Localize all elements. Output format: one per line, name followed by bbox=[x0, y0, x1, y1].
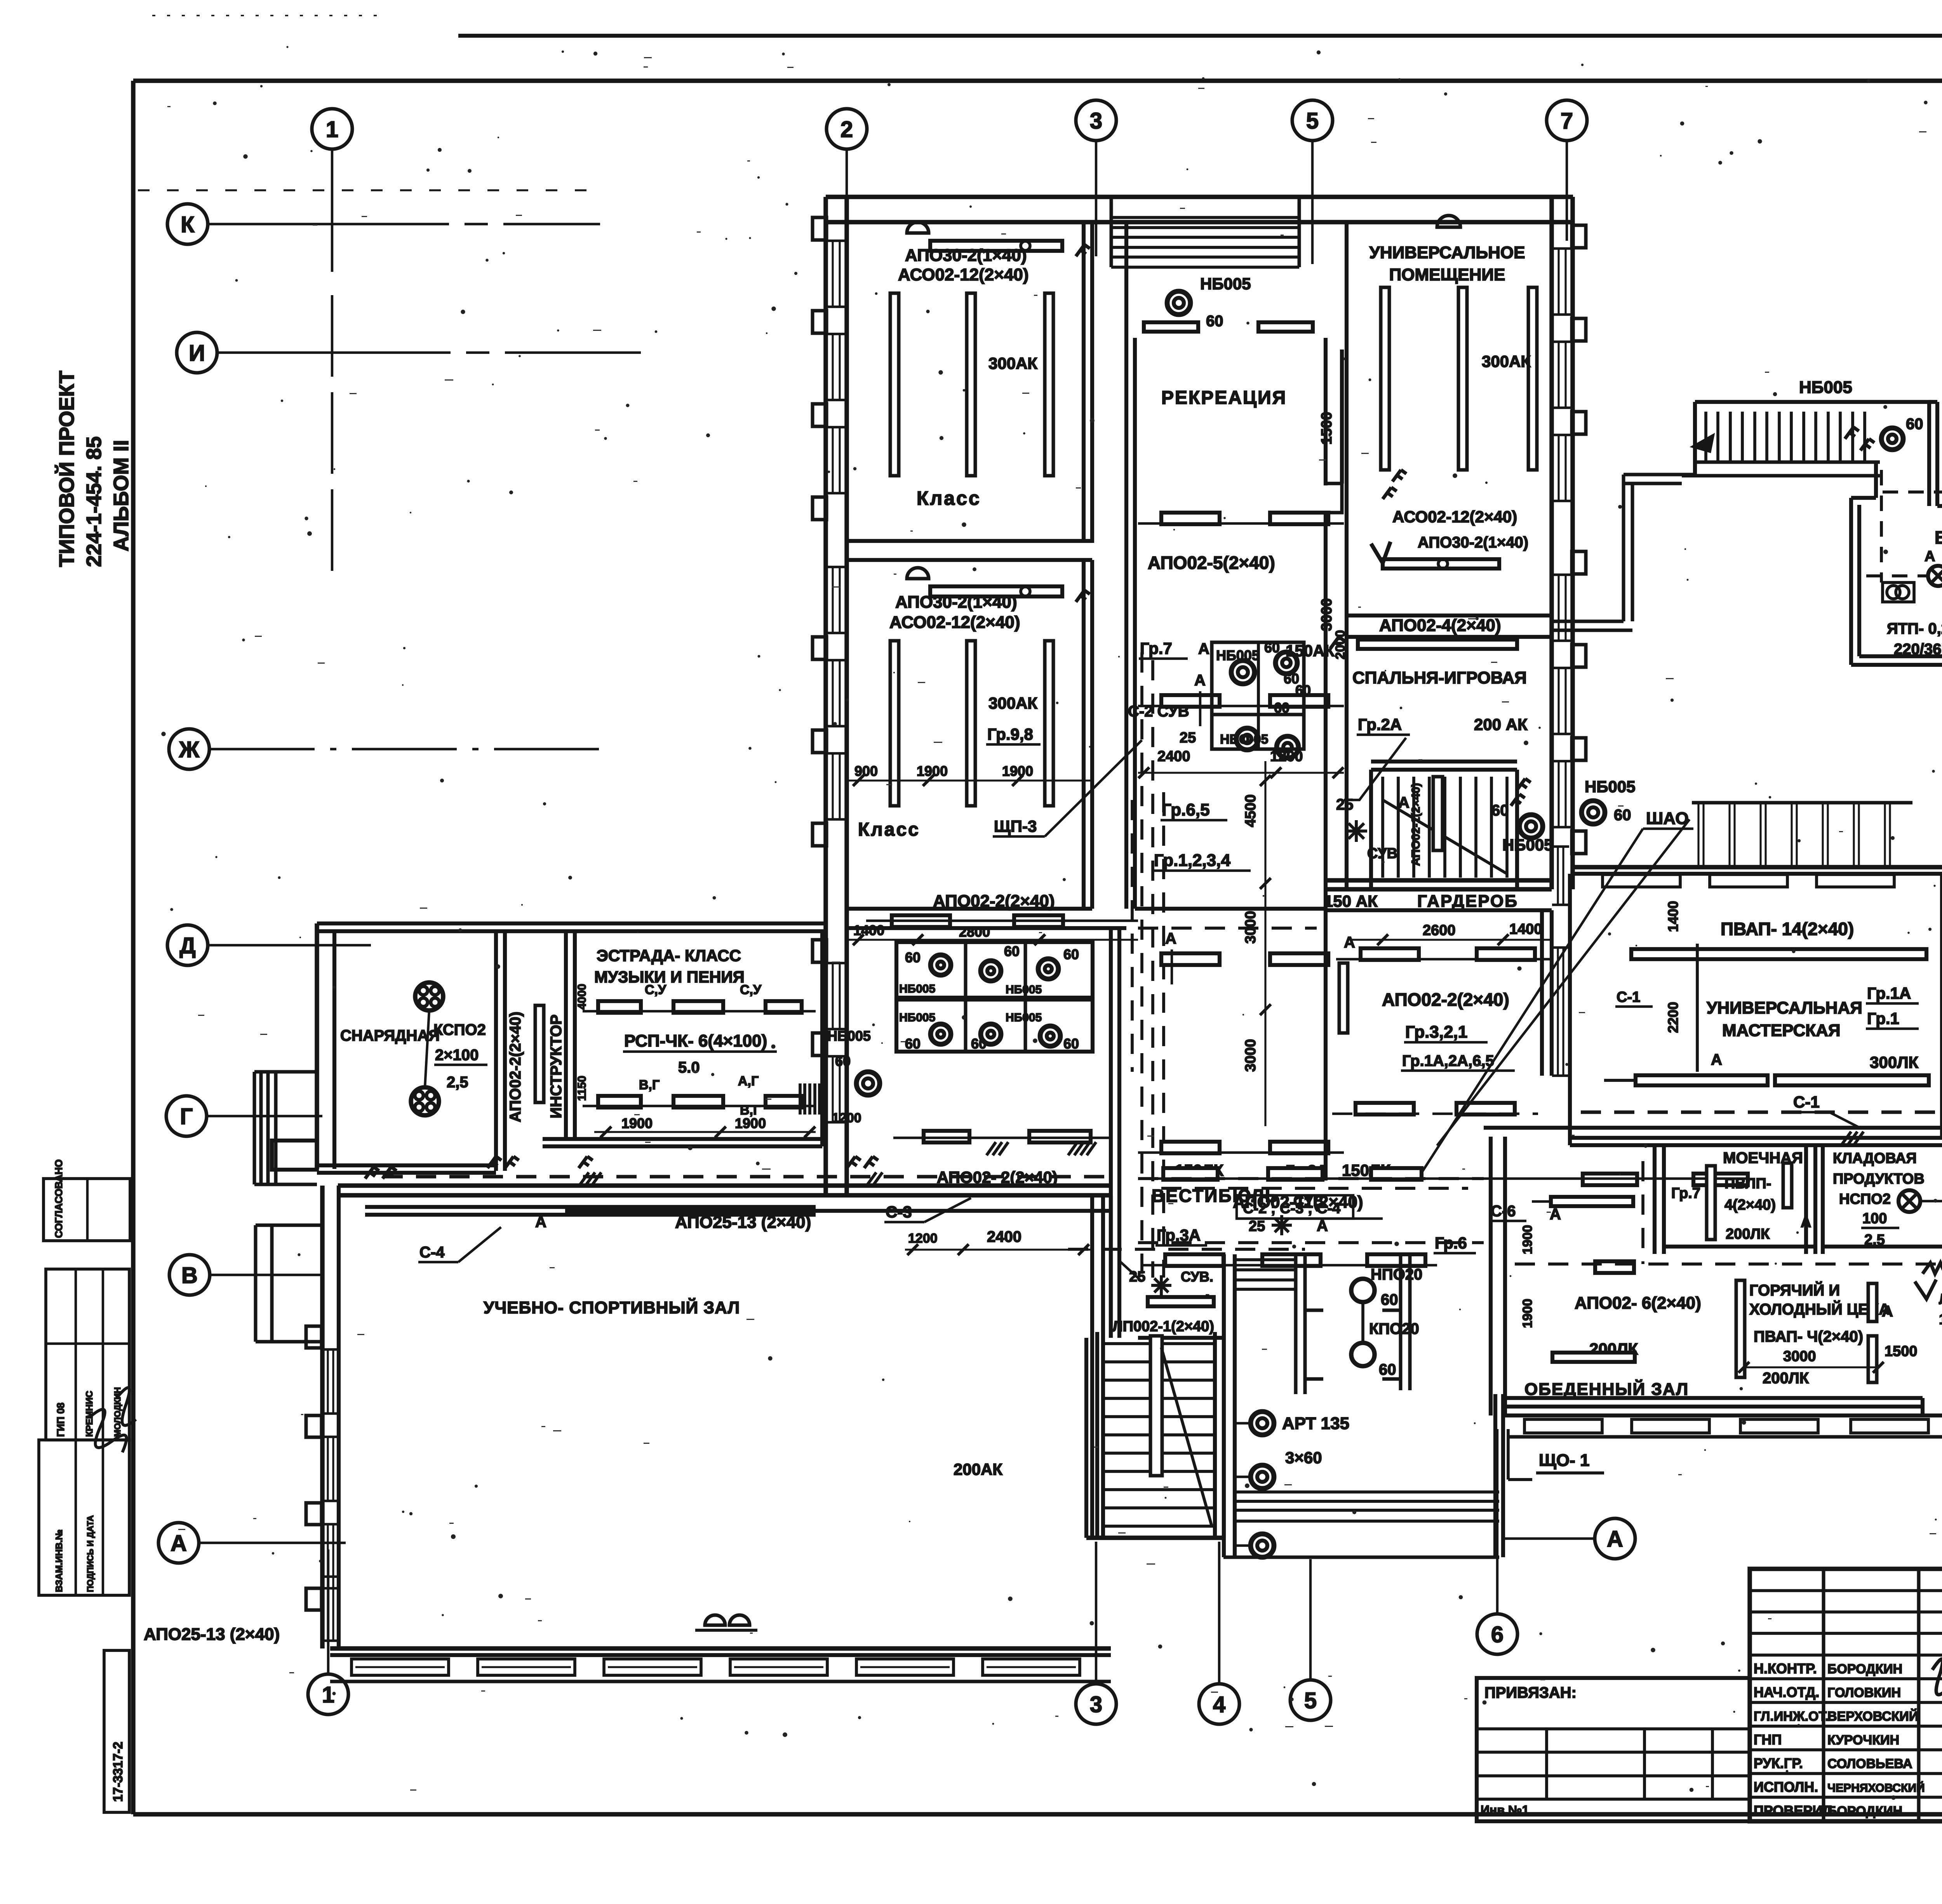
svg-text:4000: 4000 bbox=[576, 984, 588, 1010]
sleeping room top wall bbox=[1347, 616, 1552, 637]
svg-text:АПО30-2(1×40): АПО30-2(1×40) bbox=[1418, 534, 1528, 551]
svg-text:С-2 СУВ: С-2 СУВ bbox=[1128, 703, 1189, 720]
dining interior wall bbox=[1724, 1254, 1725, 1415]
vent detail upper walls bbox=[1851, 402, 1942, 665]
svg-text:К: К bbox=[181, 212, 195, 237]
classroom 2 labels bbox=[849, 593, 1142, 840]
toilet donuts row1 bbox=[899, 943, 1079, 996]
svg-text:60: 60 bbox=[1491, 802, 1509, 819]
gym east wall bbox=[1092, 1195, 1111, 1538]
svg-text:2400: 2400 bbox=[987, 1228, 1021, 1245]
nb005 at estrada right bbox=[800, 1028, 880, 1125]
left vertical project text bbox=[55, 370, 133, 567]
svg-text:БОРОДКИН: БОРОДКИН bbox=[1827, 1804, 1902, 1819]
svg-text:300АК: 300АК bbox=[1482, 352, 1531, 370]
svg-text:А: А bbox=[1194, 672, 1206, 689]
workshop s1 dashes bbox=[1581, 1093, 1942, 1128]
vestibule labels bbox=[1152, 1161, 1391, 1235]
cloakroom east window band bbox=[1552, 847, 1569, 1076]
svg-text:А: А bbox=[1198, 640, 1209, 657]
svg-text:60: 60 bbox=[1379, 1361, 1396, 1378]
svg-text:60: 60 bbox=[905, 1036, 921, 1052]
svg-text:А: А bbox=[1607, 1527, 1623, 1552]
svg-text:ГНП: ГНП bbox=[1754, 1732, 1782, 1748]
universal room luminaire strips bbox=[1381, 287, 1537, 470]
svg-text:3000: 3000 bbox=[1242, 1039, 1259, 1072]
left stamp signature scribble bbox=[89, 1388, 136, 1452]
moechnaya labels bbox=[1671, 1149, 1811, 1242]
kladovaya labels bbox=[1833, 1150, 1942, 1248]
axis D left bbox=[167, 925, 371, 965]
wc labels bbox=[1180, 640, 1311, 747]
snaryadnaya fans bbox=[411, 982, 443, 1115]
gym label bbox=[484, 1297, 740, 1317]
gr6 label bbox=[1434, 1234, 1476, 1253]
cloakroom capsules bbox=[1336, 948, 1552, 1033]
svg-text:224-1-454. 85: 224-1-454. 85 bbox=[82, 436, 106, 567]
workshop labels bbox=[1615, 901, 1919, 1071]
svg-text:2200: 2200 bbox=[1665, 1002, 1681, 1033]
svg-text:ЧЕРНЯХОВСКИЙ: ЧЕРНЯХОВСКИЙ bbox=[1827, 1781, 1925, 1794]
apo02 1 label bbox=[1915, 1280, 1942, 1348]
svg-text:РУК.ГР.: РУК.ГР. bbox=[1754, 1755, 1803, 1771]
gym west pilaster tabs bbox=[306, 1326, 322, 1610]
gym top wall bbox=[338, 1186, 1111, 1195]
svg-text:1150: 1150 bbox=[576, 1076, 588, 1101]
corridor s4 label bbox=[418, 1227, 501, 1262]
svg-text:НСПО2: НСПО2 bbox=[1839, 1191, 1891, 1207]
gym 200AK label bbox=[954, 1460, 1002, 1478]
upper corridor dashes bbox=[1138, 927, 1317, 930]
axis K left bbox=[167, 204, 600, 244]
right wing top wall bbox=[1574, 867, 1942, 874]
svg-text:УНИВЕРСАЛЬНАЯ: УНИВЕРСАЛЬНАЯ bbox=[1707, 998, 1862, 1017]
svg-text:ПРОДУКТОВ: ПРОДУКТОВ bbox=[1833, 1171, 1925, 1187]
svg-text:ПВЛП-: ПВЛП- bbox=[1724, 1175, 1771, 1192]
svg-text:ИСПОЛН.: ИСПОЛН. bbox=[1754, 1779, 1818, 1795]
dining top wall bbox=[1484, 1126, 1942, 1130]
svg-text:А: А bbox=[1711, 1051, 1722, 1068]
svg-text:ЛП002: ЛП002 bbox=[1939, 1291, 1942, 1308]
workshop west wall bbox=[1570, 874, 1942, 1145]
svg-text:ГИП 08: ГИП 08 bbox=[55, 1403, 66, 1437]
toilet donuts row2 bbox=[899, 1011, 1079, 1052]
vestibule north steps bbox=[1235, 1260, 1296, 1289]
svg-text:Инв.№1: Инв.№1 bbox=[1481, 1803, 1529, 1817]
recreation room labels bbox=[1148, 388, 1335, 660]
svg-text:ГЛ.ИНЖ.ОТ.: ГЛ.ИНЖ.ОТ. bbox=[1754, 1709, 1829, 1724]
svg-text:АПО30-2(1×40): АПО30-2(1×40) bbox=[895, 593, 1017, 612]
svg-text:АПО02-2(2×40): АПО02-2(2×40) bbox=[933, 892, 1055, 911]
svg-text:С,У: С,У bbox=[740, 982, 762, 997]
svg-text:АПО02-1(2×40): АПО02-1(2×40) bbox=[1410, 783, 1422, 866]
gr3a dashed line bbox=[1068, 1226, 1305, 1249]
svg-text:ЩО- 1: ЩО- 1 bbox=[1539, 1451, 1589, 1470]
svg-text:АПО02-2(2×40): АПО02-2(2×40) bbox=[507, 1012, 524, 1122]
svg-text:60: 60 bbox=[1381, 1291, 1398, 1308]
south wc partitions bbox=[1296, 1254, 1410, 1394]
svg-text:НБ005: НБ005 bbox=[1799, 378, 1852, 397]
svg-text:ПВАП- Ч(2×40): ПВАП- Ч(2×40) bbox=[1754, 1328, 1863, 1345]
central corridor wall under classrooms bbox=[1135, 907, 1326, 911]
gym stair labels bbox=[1112, 1260, 1214, 1335]
svg-text:1500: 1500 bbox=[1885, 1343, 1918, 1360]
svg-text:МУЗЫКИ И ПЕНИЯ: МУЗЫКИ И ПЕНИЯ bbox=[594, 968, 745, 986]
vent detail stair bbox=[1682, 402, 1932, 476]
svg-text:НБ005: НБ005 bbox=[1006, 1011, 1042, 1024]
apo02-2 rotated label bbox=[507, 1012, 524, 1122]
svg-text:А: А bbox=[535, 1214, 546, 1231]
vestibule capsules bbox=[1142, 1254, 1437, 1266]
workshop long bars bbox=[1604, 944, 1929, 1085]
svg-text:НБ005: НБ005 bbox=[1200, 275, 1251, 293]
svg-text:1900: 1900 bbox=[1002, 763, 1033, 779]
svg-text:5.0: 5.0 bbox=[678, 1059, 700, 1076]
svg-text:НПО20: НПО20 bbox=[1371, 1266, 1422, 1283]
svg-text:3: 3 bbox=[1090, 108, 1102, 134]
gym s3 label bbox=[884, 1198, 971, 1222]
svg-text:АСО02-12(2×40): АСО02-12(2×40) bbox=[1392, 508, 1517, 526]
npo20 lamps bbox=[1351, 1266, 1422, 1378]
svg-text:АПО02- 2(2×40): АПО02- 2(2×40) bbox=[937, 1168, 1058, 1186]
svg-text:2: 2 bbox=[840, 117, 853, 142]
universal room fixtures bbox=[1371, 216, 1499, 569]
svg-text:300АК: 300АК bbox=[988, 354, 1037, 372]
svg-text:С,У: С,У bbox=[645, 982, 666, 997]
estrada capsules row1 bbox=[583, 982, 816, 1013]
title block grid bbox=[1750, 1569, 1942, 1821]
dining west wall bbox=[1484, 1045, 1505, 1415]
south exit steps bbox=[1223, 1492, 1499, 1557]
classroom 1 labels bbox=[898, 246, 1037, 509]
svg-text:1400: 1400 bbox=[1665, 901, 1681, 932]
svg-text:ЛП002-1(2×40): ЛП002-1(2×40) bbox=[1112, 1318, 1214, 1335]
central riser dashed bundle bbox=[1132, 652, 1164, 1278]
sheet outer top edge line bbox=[152, 16, 1942, 36]
nspo2 lamp line bbox=[1848, 1367, 1849, 1382]
svg-text:1900: 1900 bbox=[1520, 1299, 1535, 1328]
west wing pilaster tabs bbox=[813, 217, 827, 1055]
recreation top fixtures bbox=[1144, 275, 1313, 332]
corridor above gym dashed bbox=[383, 1175, 1107, 1179]
axis G left bbox=[166, 1096, 322, 1136]
estrada dim line bbox=[594, 1127, 816, 1137]
svg-text:ГОРЯЧИЙ И: ГОРЯЧИЙ И bbox=[1749, 1281, 1840, 1299]
left wing west wall bbox=[317, 923, 334, 1169]
svg-text:АПО25-13 (2×40): АПО25-13 (2×40) bbox=[144, 1625, 280, 1644]
svg-text:С-2 ; С-3 ; С-4: С-2 ; С-3 ; С-4 bbox=[1243, 1200, 1340, 1217]
svg-text:6: 6 bbox=[1491, 1622, 1503, 1647]
svg-text:300ЛК: 300ЛК bbox=[1870, 1053, 1919, 1071]
gym west windows bbox=[322, 1349, 339, 1641]
privyazan table bbox=[1477, 1678, 1750, 1821]
svg-text:НБ005: НБ005 bbox=[1585, 777, 1636, 796]
svg-text:А: А bbox=[171, 1531, 187, 1556]
corridor apo02-11 bbox=[1138, 1168, 1748, 1221]
gym bottom windows bbox=[330, 1659, 1111, 1681]
svg-text:ПВАП- 14(2×40): ПВАП- 14(2×40) bbox=[1721, 919, 1854, 939]
svg-text:Н.КОНТР.: Н.КОНТР. bbox=[1754, 1661, 1817, 1676]
svg-text:А: А bbox=[1925, 548, 1935, 565]
dining bars bbox=[1532, 1197, 1635, 1362]
svg-text:Гр.9,8: Гр.9,8 bbox=[987, 725, 1033, 743]
svg-text:25: 25 bbox=[1249, 1218, 1265, 1235]
svg-text:1: 1 bbox=[326, 117, 338, 142]
svg-text:ШАО: ШАО bbox=[1646, 809, 1689, 828]
svg-text:Г: Г bbox=[180, 1104, 193, 1129]
vent grilles marks bbox=[1923, 1260, 1942, 1274]
svg-text:ВЕНТКАМЕРА: ВЕНТКАМЕРА bbox=[1935, 527, 1942, 548]
svg-text:ВЕРХОВСКИЙ: ВЕРХОВСКИЙ bbox=[1827, 1709, 1918, 1724]
title block signatures scribble bbox=[1932, 1659, 1942, 1803]
svg-text:КЛАДОВАЯ: КЛАДОВАЯ bbox=[1833, 1150, 1917, 1167]
shao label and diagonal leaders bbox=[1422, 809, 1693, 1173]
left stamp upper table bbox=[44, 1160, 130, 1241]
svg-text:СУВ: СУВ bbox=[1367, 845, 1397, 862]
top wing west exterior wall bbox=[826, 197, 847, 1196]
estrada capsules row2 bbox=[583, 1074, 816, 1118]
left stamp inventory number bbox=[104, 1650, 129, 1812]
svg-text:А: А bbox=[1550, 1206, 1561, 1223]
cloakroom lower capsules bbox=[1332, 1103, 1538, 1115]
svg-text:АПО02- 6(2×40): АПО02- 6(2×40) bbox=[1575, 1294, 1701, 1313]
dining bottom wall bbox=[1505, 1398, 1942, 1421]
switch cluster left wing bbox=[365, 1167, 397, 1179]
universal room west wall bbox=[1345, 222, 1349, 889]
svg-text:1(2×40): 1(2×40) bbox=[1939, 1311, 1942, 1328]
universal room labels bbox=[1369, 243, 1531, 551]
classroom 1 top fixture bbox=[907, 222, 1090, 256]
svg-text:ПРИВЯЗАН:: ПРИВЯЗАН: bbox=[1484, 1684, 1577, 1701]
svg-text:АРТ 135: АРТ 135 bbox=[1282, 1414, 1349, 1433]
svg-text:НБ005: НБ005 bbox=[827, 1028, 871, 1044]
svg-text:НБ005: НБ005 bbox=[899, 982, 935, 995]
svg-text:200АК: 200АК bbox=[954, 1460, 1002, 1478]
cloakroom labels bbox=[1324, 892, 1552, 1071]
toilet cluster boxes bbox=[896, 942, 1093, 1052]
top wing east exterior wall bbox=[1552, 197, 1573, 889]
svg-text:60: 60 bbox=[1063, 946, 1079, 962]
svg-text:200 АК: 200 АК bbox=[1474, 715, 1528, 734]
classroom 2 top fixture bbox=[907, 568, 1090, 602]
svg-text:Гр.1А,2А,6,5: Гр.1А,2А,6,5 bbox=[1402, 1052, 1494, 1069]
axis 5 top bbox=[1292, 100, 1333, 264]
svg-text:200ЛК: 200ЛК bbox=[1726, 1226, 1770, 1242]
axis A left bbox=[158, 1523, 346, 1563]
vent wiring dashes bbox=[1866, 470, 1942, 583]
svg-text:Гр.1,2,3,4: Гр.1,2,3,4 bbox=[1154, 851, 1230, 870]
svg-text:60: 60 bbox=[1295, 682, 1311, 698]
svg-text:200ЛК: 200ЛК bbox=[1763, 1370, 1809, 1387]
gr2a leader bbox=[1344, 738, 1406, 800]
svg-text:Класс: Класс bbox=[858, 819, 920, 840]
svg-text:Гр.3А: Гр.3А bbox=[1157, 1226, 1201, 1244]
svg-text:1200: 1200 bbox=[908, 1231, 938, 1246]
svg-text:ВЗАМ.ИНВ.№: ВЗАМ.ИНВ.№ bbox=[54, 1530, 64, 1592]
svg-text:150 АК: 150 АК bbox=[1324, 892, 1378, 910]
axis 3 top bbox=[1076, 100, 1116, 256]
gym stair walls bbox=[1086, 1254, 1224, 1538]
axis I left bbox=[177, 332, 641, 373]
svg-text:УЧЕБНО- СПОРТИВНЫЙ ЗАЛ: УЧЕБНО- СПОРТИВНЫЙ ЗАЛ bbox=[484, 1297, 740, 1317]
axis K dashed aux bbox=[138, 189, 594, 191]
instructor room bbox=[535, 931, 575, 1139]
corridor apo25 bar bbox=[365, 1207, 1111, 1232]
title block signees bbox=[1754, 1661, 1925, 1819]
sleeping room labels bbox=[1330, 616, 1528, 735]
svg-text:2400: 2400 bbox=[1157, 748, 1190, 765]
svg-text:4: 4 bbox=[1213, 1692, 1225, 1717]
svg-text:А,Г: А,Г bbox=[738, 1074, 759, 1088]
svg-text:60: 60 bbox=[1004, 943, 1020, 959]
svg-text:АПО02-4(2×40): АПО02-4(2×40) bbox=[1379, 616, 1501, 635]
vestibule west wall bbox=[1111, 928, 1119, 1338]
ne connection walls bbox=[1552, 475, 1695, 630]
svg-text:Гр.1А: Гр.1А bbox=[1867, 984, 1911, 1002]
svg-text:2,5: 2,5 bbox=[447, 1074, 468, 1091]
svg-text:ПОМЕЩЕНИЕ: ПОМЕЩЕНИЕ bbox=[1389, 265, 1505, 284]
svg-text:И: И bbox=[189, 341, 205, 366]
svg-text:1: 1 bbox=[322, 1682, 334, 1708]
svg-text:ПРОВЕРИЛ: ПРОВЕРИЛ bbox=[1754, 1803, 1832, 1819]
central stair labels bbox=[1336, 783, 1422, 866]
svg-text:СПАЛЬНЯ-ИГРОВАЯ: СПАЛЬНЯ-ИГРОВАЯ bbox=[1352, 668, 1527, 687]
kitchen dashed wiring bbox=[1515, 1161, 1942, 1264]
vent yatp box bbox=[1883, 583, 1914, 602]
svg-text:ОБЕДЕННЫЙ ЗАЛ: ОБЕДЕННЫЙ ЗАЛ bbox=[1524, 1379, 1689, 1399]
top wing west windows bbox=[826, 241, 847, 1122]
wc room donuts bbox=[1231, 652, 1298, 758]
gym bottom label bbox=[144, 1615, 757, 1644]
dining room labels bbox=[1520, 1206, 1701, 1399]
axis 1 bottom bbox=[308, 1549, 348, 1714]
left stamp middle table bbox=[46, 1269, 129, 1440]
kladovaya produktov bbox=[1823, 1146, 1942, 1254]
svg-text:60: 60 bbox=[1906, 416, 1923, 433]
svg-text:С-6: С-6 bbox=[1491, 1203, 1516, 1220]
east wing pilaster tabs bbox=[1572, 225, 1586, 854]
svg-text:СНАРЯДНАЯ: СНАРЯДНАЯ bbox=[340, 1027, 440, 1044]
svg-text:С-4: С-4 bbox=[419, 1244, 445, 1261]
svg-text:А: А bbox=[1882, 1303, 1893, 1320]
svg-text:1900: 1900 bbox=[735, 1115, 766, 1131]
shcho-1 label bbox=[1508, 1429, 1604, 1480]
central corridor capsules bbox=[1138, 930, 1344, 1153]
nb005 pair near shao bbox=[1491, 777, 1636, 854]
svg-text:1900: 1900 bbox=[1520, 1225, 1535, 1254]
svg-text:60: 60 bbox=[1264, 640, 1280, 656]
svg-text:РСП-ЧК- 6(4×100): РСП-ЧК- 6(4×100) bbox=[624, 1031, 767, 1050]
recreation west wall bbox=[1126, 222, 1135, 909]
recreation luminaires row1 bbox=[1138, 513, 1344, 524]
axis 4 bottom bbox=[1199, 1542, 1239, 1724]
svg-text:100: 100 bbox=[1862, 1210, 1887, 1227]
svg-text:5: 5 bbox=[1304, 1688, 1317, 1713]
svg-text:АПО02-5(2×40): АПО02-5(2×40) bbox=[1148, 553, 1275, 573]
svg-text:АСО02-12(2×40): АСО02-12(2×40) bbox=[889, 613, 1020, 632]
svg-text:НБ005: НБ005 bbox=[1502, 836, 1553, 854]
svg-text:1400: 1400 bbox=[1509, 921, 1542, 937]
svg-text:17-3317-2: 17-3317-2 bbox=[111, 1742, 125, 1802]
svg-text:ПОДПИСЬ И ДАТА: ПОДПИСЬ И ДАТА bbox=[85, 1515, 95, 1592]
toilet lower corridor label bbox=[893, 1131, 1111, 1255]
classroom 1 walls bbox=[847, 222, 1092, 560]
svg-text:25: 25 bbox=[1336, 796, 1354, 813]
svg-text:АПО02-2(2×40): АПО02-2(2×40) bbox=[1382, 989, 1509, 1010]
svg-text:60: 60 bbox=[1274, 700, 1289, 716]
svg-text:НАЧ.ОТД.: НАЧ.ОТД. bbox=[1754, 1684, 1819, 1700]
gym bottom wall bbox=[330, 1648, 1111, 1655]
svg-text:Класс: Класс bbox=[917, 487, 981, 509]
top wing top exterior wall bbox=[826, 197, 1573, 222]
svg-text:Гр.2А: Гр.2А bbox=[1358, 715, 1402, 734]
svg-text:ТИПОВОЙ ПРОЕКТ: ТИПОВОЙ ПРОЕКТ bbox=[55, 370, 78, 567]
central dim verticals bbox=[1242, 761, 1271, 1126]
hatch marks corridor bbox=[579, 1132, 1942, 1186]
svg-text:КПО20: КПО20 bbox=[1369, 1320, 1419, 1337]
switches under estrada bbox=[487, 1156, 878, 1168]
svg-text:РЕКРЕАЦИЯ: РЕКРЕАЦИЯ bbox=[1161, 388, 1287, 408]
svg-text:1900: 1900 bbox=[621, 1115, 653, 1131]
svg-text:НБО-05: НБО-05 bbox=[1220, 732, 1269, 747]
svg-text:С-1: С-1 bbox=[1617, 989, 1640, 1005]
axis 5 bottom bbox=[1290, 1559, 1331, 1720]
svg-text:900: 900 bbox=[854, 763, 878, 779]
svg-text:4(2×40): 4(2×40) bbox=[1724, 1197, 1776, 1213]
svg-text:БОРОДКИН: БОРОДКИН bbox=[1827, 1662, 1902, 1676]
central stair walls bbox=[1326, 762, 1552, 889]
svg-text:2,5: 2,5 bbox=[1864, 1232, 1885, 1248]
svg-text:УНИВЕРСАЛЬНОЕ: УНИВЕРСАЛЬНОЕ bbox=[1369, 243, 1525, 262]
gym west wall bbox=[322, 1186, 339, 1648]
svg-text:С-1: С-1 bbox=[1793, 1093, 1820, 1111]
vent chamber label bbox=[1935, 527, 1942, 548]
svg-text:60: 60 bbox=[1206, 313, 1223, 330]
svg-text:60: 60 bbox=[905, 949, 921, 965]
svg-text:А: А bbox=[1398, 794, 1410, 811]
svg-text:АСО02-12(2×40): АСО02-12(2×40) bbox=[898, 265, 1029, 284]
svg-text:3×60: 3×60 bbox=[1285, 1448, 1322, 1467]
svg-text:ЭСТРАДА- КЛАСС: ЭСТРАДА- КЛАСС bbox=[597, 946, 741, 965]
axis V left bbox=[169, 1255, 320, 1295]
svg-text:5: 5 bbox=[1306, 108, 1319, 134]
svg-text:А: А bbox=[1317, 1217, 1328, 1235]
svg-text:3: 3 bbox=[1090, 1692, 1102, 1717]
vestibule wiring bbox=[1138, 1188, 1484, 1243]
axis Zh left bbox=[169, 729, 602, 769]
gym stair treads bbox=[1102, 1336, 1215, 1526]
vent nb005 bbox=[1799, 378, 1923, 450]
svg-text:АПО25-13 (2×40): АПО25-13 (2×40) bbox=[675, 1213, 811, 1232]
svg-text:60: 60 bbox=[835, 1053, 851, 1069]
estrada labels bbox=[576, 946, 777, 1131]
corridor dashed center-right bbox=[1138, 1177, 1484, 1180]
svg-text:3000: 3000 bbox=[1783, 1348, 1816, 1365]
svg-text:Гр.1: Гр.1 bbox=[1867, 1009, 1899, 1028]
south exit walls bbox=[1224, 1254, 1503, 1557]
gr labels central bbox=[1128, 639, 1251, 871]
left stamp lower table bbox=[39, 1440, 129, 1595]
recreation dim texts bbox=[1138, 412, 1344, 778]
svg-text:Гр.7: Гр.7 bbox=[1140, 639, 1172, 657]
svg-text:ЩП-3: ЩП-3 bbox=[994, 817, 1037, 835]
axis 6 bottom bbox=[1477, 1429, 1517, 1654]
classroom 2 luminaire strips bbox=[890, 641, 1053, 806]
snaryadnaya room bbox=[317, 931, 505, 1173]
svg-text:АЛЬБОМ II: АЛЬБОМ II bbox=[110, 440, 133, 551]
svg-text:СОЛОВЬЕВА: СОЛОВЬЕВА bbox=[1827, 1756, 1912, 1771]
top wing east windows bbox=[1552, 249, 1573, 827]
